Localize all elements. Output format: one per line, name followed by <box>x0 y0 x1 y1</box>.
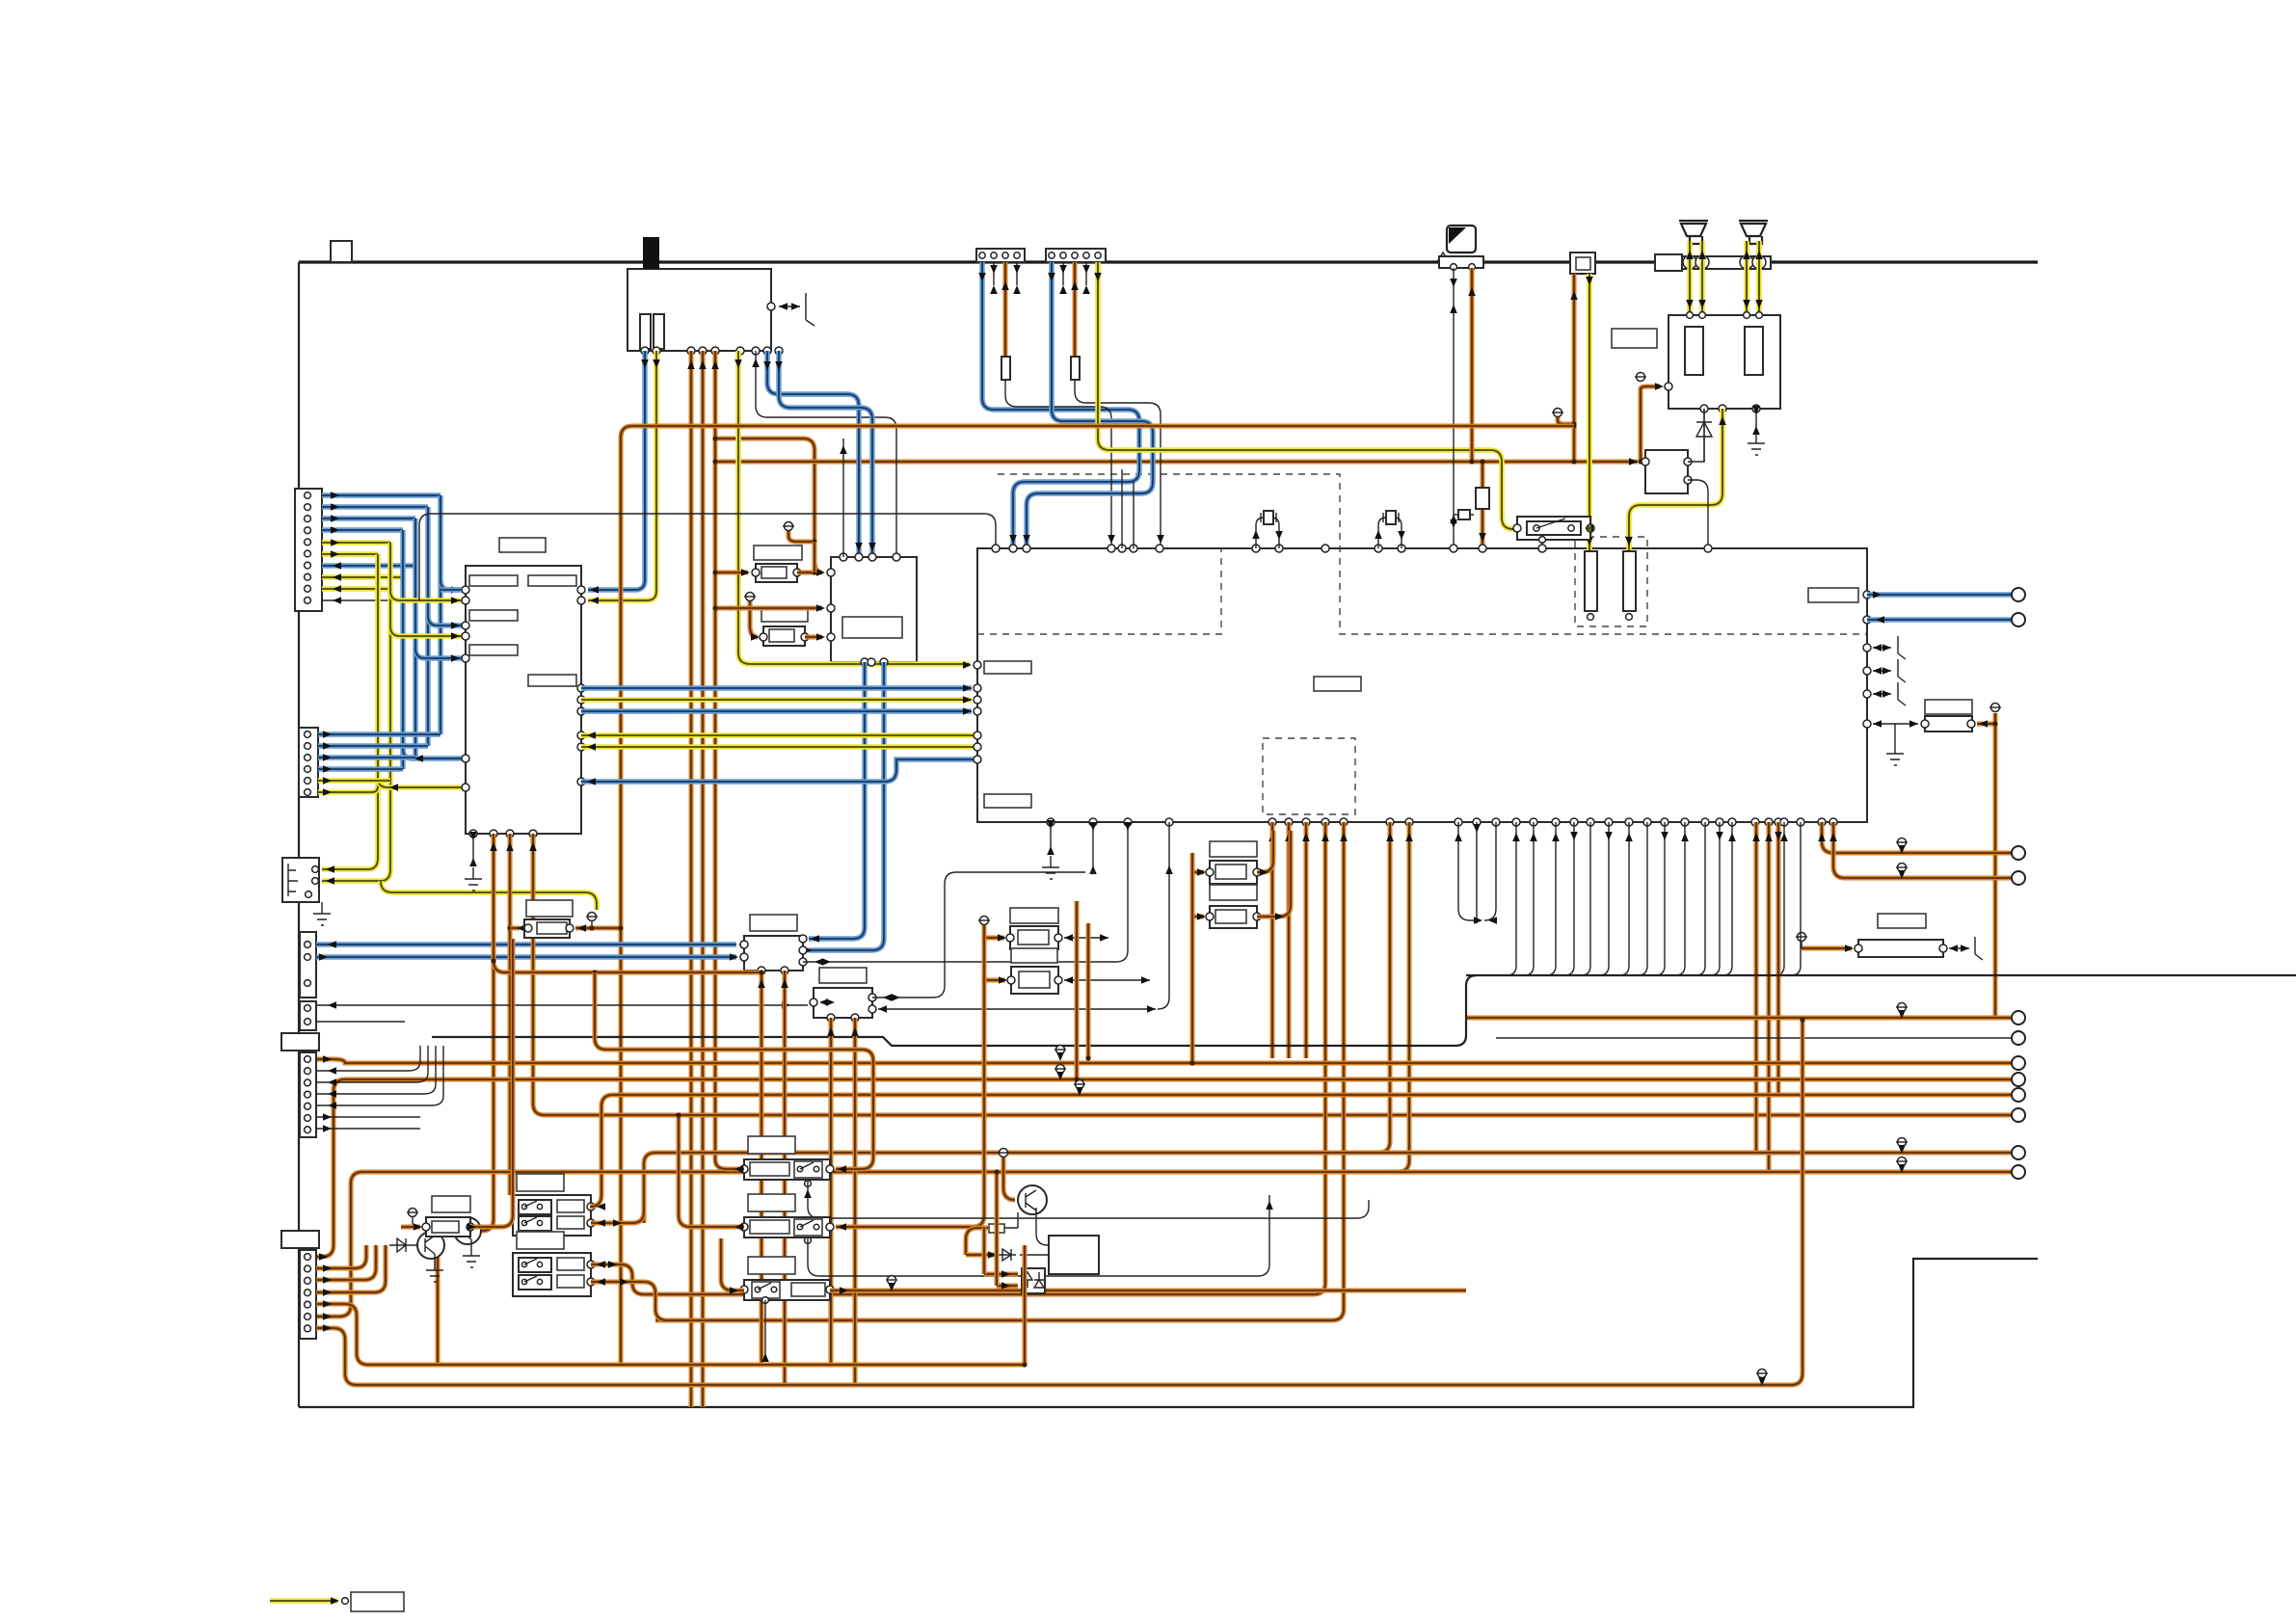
connector strip CNT1 <box>976 249 1025 262</box>
wire yellow CNT2-5 to bus <box>1098 262 1517 529</box>
wires yellow U2 to U1 <box>581 732 977 738</box>
orange verticals bottom mid <box>982 1227 987 1274</box>
pins U2 left <box>974 661 981 669</box>
black wires U2 top <box>1121 469 1123 548</box>
wire yellow PS1-2 to U1 <box>588 351 656 600</box>
resistor R-E1 <box>754 545 802 560</box>
pins U2 right <box>1863 591 1871 599</box>
wire orange branch 455 <box>715 439 822 572</box>
wire yellow U3 down to U2 <box>1629 409 1722 551</box>
pins B5 left <box>827 569 835 576</box>
horn right <box>1739 221 1768 244</box>
wire black M1 998 <box>803 961 1116 963</box>
wire black 1076 step <box>432 975 1477 1046</box>
resistor R-C2 <box>1210 885 1257 900</box>
wire orange 1103 <box>316 1059 2012 1063</box>
wires CN2 <box>318 732 441 736</box>
bundle verticals <box>438 495 442 734</box>
mixer M1 <box>744 936 803 971</box>
connector CN4 <box>281 1231 319 1248</box>
transistor Q1 <box>417 1232 444 1259</box>
wires U1 to U2 trio <box>581 685 972 690</box>
orange risers M2 <box>829 1018 834 1365</box>
resistor R-E2 <box>761 607 808 622</box>
icon cassette <box>1447 226 1476 253</box>
label box top-right <box>1612 329 1657 348</box>
pins U2 top <box>992 545 1000 552</box>
wire blue CNT1-1 to U2 <box>982 262 1139 548</box>
connector CN1 <box>295 489 322 611</box>
switch block S3 <box>748 1257 795 1274</box>
wire orange U1-512 down <box>438 834 494 1365</box>
wire blue U1 587 in <box>441 587 462 592</box>
wire blue PS1-9 <box>779 351 872 557</box>
ground U2 bottom <box>1050 822 1052 852</box>
connector strip CNT2 <box>1046 249 1106 262</box>
wire S3 right long <box>830 1289 1466 1293</box>
wire blue U2 to U1 788 <box>581 759 977 782</box>
wire S3 left <box>721 1238 744 1290</box>
wire black thick bus right <box>1466 974 2296 976</box>
orange risers U2 group2 <box>1378 822 1390 1153</box>
wire orange modebox <box>1572 274 1577 462</box>
wire orange 1196 <box>644 1153 2012 1223</box>
jack J1 <box>282 858 319 902</box>
wires stack A <box>590 1195 601 1207</box>
wire blue CNT2-1 to U2 <box>1027 262 1153 548</box>
orange riser 1375 long <box>644 822 1325 1294</box>
orange vertical 1129 <box>1086 923 1091 1058</box>
pins U3 bottom <box>1700 405 1708 412</box>
orange risers U2 group1 <box>1270 822 1275 1058</box>
wires CN1 in <box>322 563 415 568</box>
wires M2 right <box>872 872 1085 998</box>
wire orange PS1-4 down <box>701 351 706 1407</box>
resistor R-A <box>526 900 573 917</box>
stub U2 1134 <box>1092 822 1094 872</box>
test point near B5 <box>785 522 793 531</box>
stub black CNT2-2 <box>1062 262 1064 285</box>
resistor R-D <box>432 1196 470 1212</box>
dual diode pack <box>1022 1268 1045 1293</box>
resistor R-B2 <box>1011 948 1057 963</box>
orange risers M1 <box>760 971 764 1365</box>
volume RV2 <box>1878 914 1926 928</box>
IC U1 preamp <box>466 566 581 834</box>
wire yellow PS1-6 to U2 <box>738 351 970 664</box>
link resistor cassette line <box>1454 514 1474 516</box>
orange vertical 1237 <box>1190 853 1195 1063</box>
wire black cassette <box>1453 268 1455 548</box>
tbar pins U2 right <box>1873 647 1891 649</box>
wire orange 1120 <box>316 1079 2012 1257</box>
black verticals U2 to thick bus <box>1507 822 1516 975</box>
wire yellow SW-Y right <box>1585 524 1593 532</box>
wire blue PS1-1 to U1 <box>588 351 645 590</box>
wire orange link 1822 <box>1754 822 1759 1153</box>
wire orange CNT1-3 fuse <box>1003 262 1008 357</box>
connector CN3 <box>281 1033 319 1051</box>
wires yellow to jack <box>322 878 381 884</box>
wire orange 1089 link to S1 <box>595 972 873 1169</box>
connector CN2 <box>299 728 318 797</box>
wires B5 bottom blue <box>809 662 865 939</box>
label U2 right out <box>1808 588 1858 602</box>
connector CN2c <box>300 1001 316 1030</box>
wires stack B <box>591 1264 644 1294</box>
IC U4 logic <box>1645 450 1688 493</box>
wire orange U1-529 down <box>508 834 513 1195</box>
wires blue U2 right to terminals <box>1867 592 2012 597</box>
stub U2 1170 <box>1116 822 1128 962</box>
pins U1 right <box>577 586 585 594</box>
wire black PS1-7 <box>756 351 896 557</box>
wire blue long 1010 <box>316 954 736 959</box>
switch stack A <box>517 1174 564 1191</box>
orange vertical 1117 <box>1075 901 1080 1079</box>
wire blue PS1-8 <box>767 351 859 557</box>
transistor Q2 <box>454 1217 481 1244</box>
motor coupler bar <box>1655 254 1682 271</box>
pins B5 top <box>840 553 847 561</box>
wire black 1077 to terminal <box>1496 1037 2012 1039</box>
wires CN3 black <box>316 1061 420 1071</box>
wire orange tee to U2 pin 1538 <box>1481 462 1485 548</box>
power block PS1 <box>627 269 771 351</box>
wire blue long 985 <box>316 942 736 946</box>
IC B5 servo block <box>831 557 917 662</box>
pins B5 bottom <box>861 658 868 666</box>
switch SW-Y <box>1517 517 1590 540</box>
wire orange bus O2 <box>715 460 1638 465</box>
volume RV1 <box>1925 700 1972 714</box>
pin U3 left <box>1665 383 1672 390</box>
wire S2 left <box>679 1115 744 1227</box>
wire yellow jack line 925 <box>381 881 597 910</box>
wire orange 911 <box>1833 822 2012 878</box>
stub black CNT1-2 <box>993 262 995 285</box>
wire yellow modebox <box>1587 274 1592 551</box>
wire orange R-A right from O1 <box>575 926 621 931</box>
frame outer border <box>299 260 2038 263</box>
resistor R-C1 <box>1210 841 1257 857</box>
pins PS1 bottom <box>641 347 649 355</box>
dash resistors top right U2 <box>1585 551 1597 611</box>
wire orange PS1-3 down <box>689 351 694 1407</box>
crystal X1 <box>1256 518 1270 548</box>
ground U1 bottom <box>472 834 474 864</box>
connector under cassette <box>1439 256 1483 268</box>
orange riser 1394 long <box>655 822 1344 1320</box>
switch block S2 <box>748 1194 795 1211</box>
wire orange U3 feed <box>1641 386 1660 462</box>
page ref box <box>331 241 352 262</box>
stub U2 1213 <box>1158 822 1169 1009</box>
wire orange U1-553 down to bus1157 <box>533 834 2012 1115</box>
orange mid vert 845 <box>813 542 817 572</box>
wire orange 1136 <box>601 1095 2012 1195</box>
connector CN2b <box>300 932 316 998</box>
wire orange CNT2-3 fuse <box>1073 262 1078 357</box>
wire orange PS1-5 down <box>713 351 718 1159</box>
wire orange link 1835 <box>1767 822 1772 1172</box>
icon mode box <box>1570 253 1595 274</box>
IC U3 mechanism driver <box>1669 315 1780 409</box>
pins U2 bottom <box>1047 818 1055 826</box>
stub black CNT1-4 <box>1016 262 1018 285</box>
pins U1 bottom <box>469 830 477 838</box>
legend yellow bottom left <box>270 1598 337 1604</box>
mixer M2 <box>814 988 872 1018</box>
wire orange 885 <box>1822 822 2012 853</box>
wire orange R-A left feed <box>510 926 520 931</box>
wire S1 left <box>715 1159 744 1169</box>
wires CN1 yellow out <box>322 540 390 545</box>
wire orange 1009 link <box>494 961 761 972</box>
box bottom mid <box>1049 1236 1099 1274</box>
pins U1 left <box>462 586 469 594</box>
wire black 1046 long <box>316 1004 808 1006</box>
horn left <box>1679 221 1708 244</box>
orange vertical 1021 <box>836 925 984 1227</box>
wire orange 1216 <box>316 1172 2012 1317</box>
wire orange branch 631 to B5 <box>715 606 822 611</box>
diode D1 <box>1703 409 1705 462</box>
transistor Q3 <box>1018 1185 1047 1214</box>
wire orange link 1845 <box>1776 822 1781 1095</box>
diode D2 <box>389 1238 417 1252</box>
wire orange cassette to O2 bus <box>1470 268 1475 462</box>
wires U4 right <box>1688 409 1704 462</box>
ground U3 <box>1755 409 1757 430</box>
wire orange 1056 <box>1466 1016 2012 1021</box>
wire orange bus O1 <box>621 426 1574 1365</box>
IC U2 main system controller <box>977 548 1867 822</box>
wires CN1 blue out <box>322 492 441 497</box>
wires CN4 <box>316 1245 366 1268</box>
black loop U2 bottom <box>1458 822 1481 920</box>
resistor small Q3 <box>989 1224 1004 1233</box>
resistor R-B1 <box>1010 908 1058 923</box>
diode D3 <box>997 1249 1016 1261</box>
switch stack B <box>517 1232 564 1249</box>
pin PS1 right <box>767 303 775 310</box>
test point near modebox vert <box>1554 409 1562 417</box>
wires horns to U3 <box>1687 241 1693 315</box>
switch block S1 <box>748 1136 795 1154</box>
stub black CNT2-4 <box>1085 262 1087 285</box>
crystal X2 <box>1378 518 1393 548</box>
